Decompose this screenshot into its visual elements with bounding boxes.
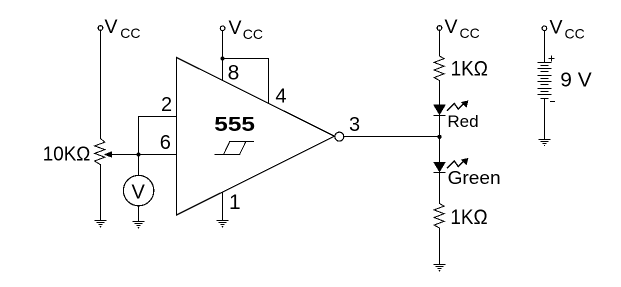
svg-text:V: V [445, 16, 458, 38]
wire potentiometer bottom to ground [100, 165, 102, 220]
wire output pin 3 to LED node [344, 136, 440, 138]
diode D2 green LED triangle [434, 162, 445, 171]
wire pin 1 to ground [222, 192, 224, 220]
wire wiper to pin 6 [111, 154, 177, 156]
diode D2 cathode bar [434, 172, 445, 174]
resistor R1 10K potentiometer body [95, 139, 105, 165]
wire Vcc to R2 [439, 30, 441, 56]
node junction pin8/pin4 [220, 56, 224, 60]
svg-text:V: V [229, 17, 242, 39]
wire red LED through node to green LED [439, 116, 441, 163]
svg-text:CC: CC [120, 25, 140, 41]
wire pin 4 vertical to triangle [268, 59, 270, 104]
svg-text:1: 1 [229, 191, 241, 214]
potentiometer wiper arrow [105, 152, 112, 157]
svg-text:9 V: 9 V [560, 70, 592, 92]
svg-text:3: 3 [349, 114, 360, 136]
wire pin 2 horizontal [139, 116, 177, 118]
diode D1 red LED triangle [434, 105, 445, 114]
diode D1 cathode bar [434, 115, 445, 117]
red LED emission arrow [447, 101, 468, 110]
op-amp U1 555 triangle body [177, 58, 335, 216]
svg-text:CC: CC [460, 25, 480, 41]
ground (battery) [539, 140, 550, 147]
wire Vcc to potentiometer top [100, 30, 102, 138]
wire green LED to R3 [439, 173, 441, 204]
svg-text:V: V [550, 17, 563, 39]
wire junction to voltmeter [138, 155, 140, 176]
wire voltmeter to ground [138, 206, 140, 221]
wire R2 to red LED [439, 81, 441, 106]
node Vcc terminal (LED branch) [437, 26, 442, 31]
wire Vcc down through pin 8 to triangle [222, 31, 224, 81]
svg-text:6: 6 [160, 132, 171, 154]
resistor R3 1K body [434, 204, 444, 229]
ground (voltmeter) [133, 222, 144, 229]
svg-text:2: 2 [161, 94, 172, 116]
wire junction to pin 4 horizontal [223, 58, 269, 60]
ground (pin 1) [217, 221, 228, 228]
wire bracket vertical pin2-pin6 [138, 117, 140, 155]
resistor R2 1K body [434, 56, 444, 81]
battery plus sign [549, 56, 554, 61]
battery minus sign [550, 101, 554, 103]
svg-text:4: 4 [275, 85, 286, 107]
node output bubble [335, 132, 344, 141]
svg-text:V: V [105, 16, 118, 38]
voltmeter U2 circle [123, 175, 153, 205]
wire R3 to ground [439, 228, 441, 264]
node Vcc terminal (top, pin 8) [220, 26, 225, 31]
svg-text:Red: Red [447, 112, 478, 131]
svg-text:8: 8 [228, 61, 240, 84]
svg-text:CC: CC [243, 26, 263, 42]
green LED emission arrow [447, 159, 468, 168]
node junction LEDs / output [437, 135, 441, 139]
svg-text:1KΩ: 1KΩ [451, 57, 488, 80]
svg-text:CC: CC [565, 25, 585, 41]
wire battery to ground [544, 99, 546, 140]
svg-text:Green: Green [448, 168, 501, 188]
node Vcc terminal (left) [98, 26, 103, 31]
svg-text:V: V [132, 181, 146, 203]
battery B1 plates [538, 63, 551, 99]
svg-text:10KΩ: 10KΩ [43, 143, 91, 166]
ground (LED branch) [434, 265, 445, 272]
svg-text:555: 555 [214, 114, 255, 136]
node junction wiper/bracket/voltmeter [136, 152, 140, 156]
ground (potentiometer) [95, 221, 106, 228]
schmitt trigger hysteresis symbol [215, 142, 253, 155]
node Vcc terminal (battery) [542, 26, 547, 31]
svg-text:1KΩ: 1KΩ [450, 206, 487, 229]
wire Vcc to battery top [544, 31, 546, 63]
